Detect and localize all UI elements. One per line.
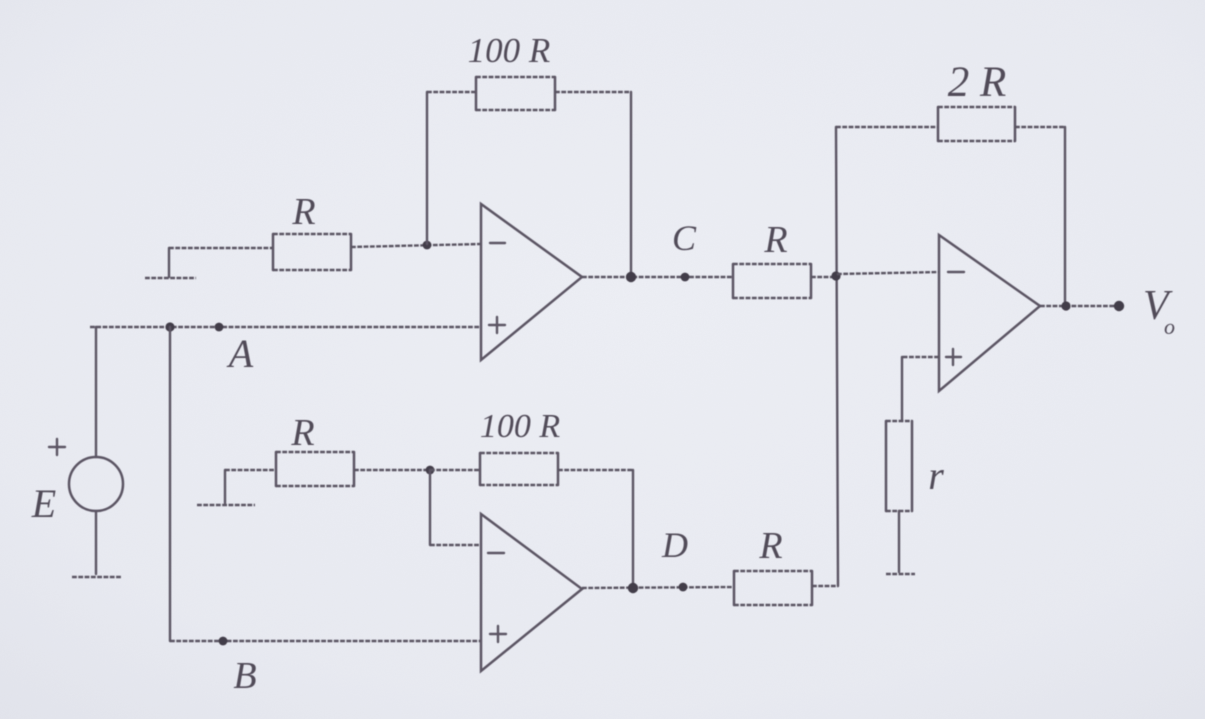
U2 inverting input mark (488, 552, 504, 554)
wire 2R right down to output (1015, 126, 1065, 128)
node at U1 output feedback tap (626, 272, 636, 282)
resistor R3 (733, 264, 811, 298)
svg-text:D: D (661, 525, 688, 565)
op-amp U1 (481, 204, 582, 360)
U1 non-inverting input mark (489, 317, 505, 333)
svg-text:E: E (31, 481, 56, 526)
wire A line (90, 326, 481, 328)
op-amp U3 (939, 235, 1040, 391)
junction node at U2 input (426, 466, 435, 475)
wire B line (170, 640, 481, 642)
polarity + of source E (49, 439, 65, 455)
wire R1 right to U1 inverting input (351, 244, 481, 247)
wire U3 non-inverting to r (902, 356, 939, 358)
svg-text:2 R: 2 R (948, 59, 1007, 106)
wire feedback right 100R down to output (555, 91, 631, 93)
svg-text:100 R: 100 R (468, 31, 551, 70)
voltage source E (69, 457, 123, 511)
input stub terminal bottom (224, 470, 226, 503)
resistor R4 (734, 571, 812, 605)
wire source bottom to ground (95, 511, 97, 574)
wire R2 right to junction (354, 469, 430, 471)
output terminal Vo (1114, 301, 1124, 311)
ground of source E (72, 576, 122, 578)
svg-text:A: A (226, 331, 254, 376)
wire U1 output to R3 (582, 276, 733, 278)
node B (219, 637, 228, 646)
node at U3 output feedback tap (1061, 301, 1070, 310)
node A (215, 323, 224, 332)
node summing junction (831, 271, 840, 280)
resistor R1 (273, 234, 351, 270)
wire U2 output to R4 (582, 587, 734, 588)
wire summing bus vertical (836, 127, 838, 586)
node at U2 output feedback tap (628, 583, 638, 593)
U3 inverting input mark (948, 271, 964, 273)
input stub terminal top (168, 248, 170, 277)
wire 2R left (836, 126, 938, 128)
U1 inverting input mark (490, 242, 505, 244)
svg-text:r: r (928, 453, 944, 498)
wire R4 right to summing bus (812, 585, 838, 587)
node D (679, 583, 688, 592)
resistor 100R top feedback (476, 77, 555, 110)
svg-text:B: B (233, 655, 256, 697)
svg-text:o: o (1164, 314, 1175, 339)
wire R1 left (169, 247, 273, 249)
wire source top to node junction (95, 327, 97, 457)
ground of r (886, 573, 915, 575)
U3 non-inverting input mark (946, 349, 961, 365)
resistor r (886, 421, 912, 511)
svg-text:100 R: 100 R (480, 408, 561, 445)
resistor 2R (938, 107, 1015, 141)
wire R3 right to summing bus (811, 276, 837, 278)
wire U3 output (1040, 305, 1119, 307)
wire left vertical bus (169, 327, 171, 641)
wire R2 left (225, 469, 276, 471)
wire bus to U3 inverting input (837, 272, 939, 274)
U2 non-inverting input mark (490, 626, 506, 642)
wire junction down to U2 inverting input (429, 470, 431, 545)
junction node at U1 inverting input (423, 241, 432, 250)
svg-text:C: C (672, 218, 697, 258)
svg-text:R: R (758, 525, 782, 567)
svg-text:R: R (290, 412, 314, 454)
wire junction to 100R bottom left (430, 469, 480, 471)
op-amp U2 (481, 514, 582, 671)
svg-text:R: R (763, 219, 787, 261)
wire feedback up-left 100R (426, 92, 428, 244)
node junction at top of source (165, 322, 174, 331)
resistor R2 (276, 452, 354, 486)
resistor 100R bottom feedback (480, 453, 558, 485)
svg-text:R: R (291, 191, 315, 233)
wire 100R bottom right down to output (558, 469, 633, 471)
wire r to ground (898, 511, 900, 572)
node C (681, 273, 690, 282)
